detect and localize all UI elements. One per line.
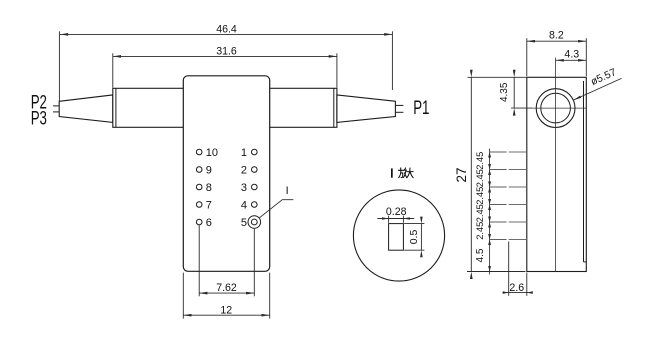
dimension 12 line [183, 314, 269, 316]
dimension 27 line [470, 77, 472, 271]
pin 3 [252, 184, 258, 190]
centerline horizontal [532, 107, 587, 109]
pin 6 [196, 219, 202, 225]
side pin row 5 [490, 221, 507, 223]
dimension 2.6 extension lines [508, 242, 510, 296]
svg-text:12: 12 [220, 304, 232, 316]
dimension 27 extension lines [468, 76, 527, 78]
svg-text:4.3: 4.3 [564, 49, 579, 61]
dimension 46.4 line [60, 33, 392, 35]
svg-text:46.4: 46.4 [216, 24, 237, 36]
side pin row 4 [490, 204, 507, 206]
dimension 8.2 line [527, 40, 587, 42]
svg-text:3: 3 [241, 182, 247, 194]
pin 4 [252, 202, 258, 208]
svg-text:7: 7 [206, 199, 212, 211]
dimension 4.3 line [556, 59, 587, 61]
svg-text:P1: P1 [413, 98, 429, 119]
pin 2 [252, 167, 258, 173]
svg-text:1: 1 [241, 147, 247, 159]
detail view circle [353, 190, 444, 281]
svg-text:9: 9 [206, 164, 212, 176]
dimension 0.5 line [420, 224, 422, 251]
dimension 12 extension lines [182, 273, 184, 319]
leader to detail I [259, 200, 293, 218]
pin 7 [196, 202, 202, 208]
svg-text:2.45: 2.45 [475, 187, 485, 205]
side view housing outline [527, 77, 587, 271]
dimension 7.62 extension lines [198, 225, 200, 296]
svg-text:2.6: 2.6 [509, 282, 524, 294]
detail title text fang-da [398, 168, 406, 178]
svg-text:6: 6 [206, 217, 212, 229]
dimension 31.6 extension lines [112, 53, 114, 87]
svg-text:2: 2 [241, 164, 247, 176]
fiber boot cone (right) [337, 95, 396, 123]
pin 1 [252, 149, 258, 155]
side view inner edge strip [583, 81, 585, 262]
svg-text:8: 8 [206, 182, 212, 194]
dimension 31.6 line [113, 55, 337, 57]
pin pitch chain dimension line [489, 149, 491, 275]
svg-text:2.45: 2.45 [475, 152, 485, 170]
wire fiber stubs P2/P3 (left) [53, 105, 59, 107]
barrel bore circle inner [541, 93, 571, 123]
svg-text:2.45: 2.45 [475, 222, 485, 240]
barrel bore circle outer [536, 89, 575, 128]
dimension 2.6 line [503, 292, 532, 294]
svg-text:P3: P3 [31, 108, 47, 129]
svg-text:7.62: 7.62 [216, 282, 237, 294]
dimension 7.62 line [199, 292, 254, 294]
leader diameter 5.57 [573, 78, 621, 100]
side pin row 2 [490, 169, 507, 171]
pin 10 [196, 149, 202, 155]
pin 8 [196, 184, 202, 190]
svg-text:4: 4 [241, 199, 247, 211]
dimension 0.28 line [377, 218, 414, 220]
side pin row 6 [490, 239, 507, 241]
switch housing front face [183, 76, 269, 271]
svg-text:5: 5 [241, 217, 247, 229]
svg-text:10: 10 [206, 147, 218, 159]
side pin row 3 [490, 186, 507, 188]
dimension 0.28 extension lines [388, 216, 390, 223]
svg-text:I: I [286, 185, 289, 197]
pin 9 [196, 167, 202, 173]
detail pin cross-section rectangle [389, 224, 404, 251]
dimension 0.5 extension lines [404, 223, 424, 225]
cylinder barrel body [113, 88, 337, 127]
svg-text:27: 27 [454, 167, 469, 182]
dimension 4.35 line [513, 77, 515, 108]
svg-text:4.5: 4.5 [475, 248, 486, 262]
pin 5 with detail target ring [248, 216, 261, 229]
svg-text:2.45: 2.45 [475, 204, 485, 222]
svg-text:4.35: 4.35 [499, 82, 510, 102]
barrel end cap line (left) [115, 88, 117, 127]
svg-text:8.2: 8.2 [549, 30, 564, 42]
svg-text:2.45: 2.45 [475, 169, 485, 187]
detail title bar I [391, 168, 393, 177]
centerline vertical [555, 58, 557, 272]
barrel end cap line (right) [333, 88, 335, 127]
svg-text:31.6: 31.6 [216, 46, 237, 58]
dimension 46.4 extension lines [58, 31, 60, 101]
wire fiber stub P1 (right) [396, 104, 404, 106]
side pin row 1 [490, 151, 507, 153]
svg-text:0.5: 0.5 [409, 230, 420, 245]
dimension 8.2 extension lines [526, 38, 528, 76]
fiber boot cone (left) [59, 95, 113, 123]
svg-text:0.28: 0.28 [386, 206, 407, 218]
